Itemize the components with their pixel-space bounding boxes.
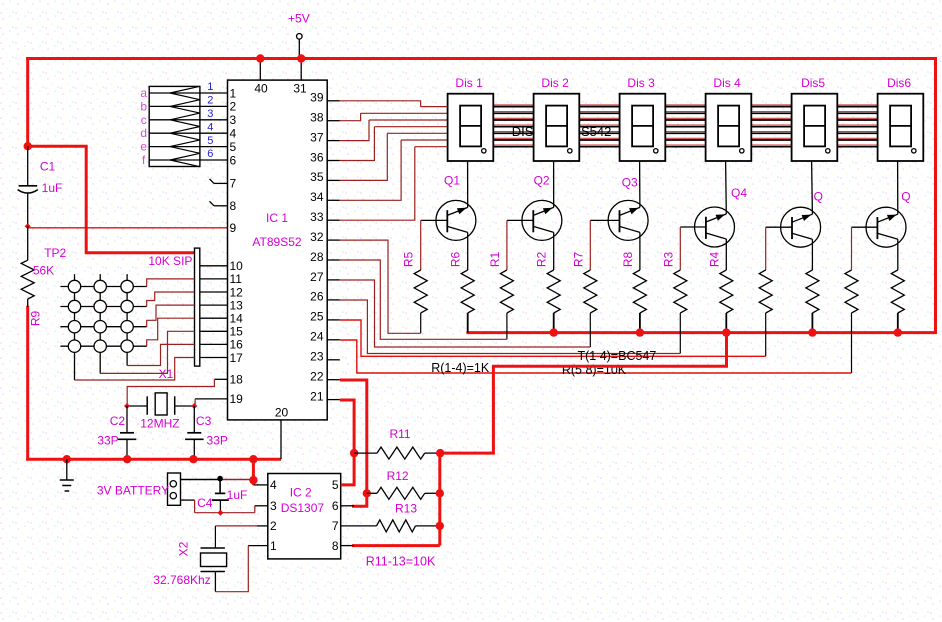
capacitor C2 33P — [97, 406, 136, 459]
resistor RE6 (emitter of Q6) — [891, 270, 904, 333]
pin 24 stub and label — [310, 330, 340, 344]
svg-text:R1: R1 — [488, 252, 502, 268]
pin 14 label — [230, 312, 244, 326]
svg-text:21: 21 — [310, 389, 324, 403]
pin 40 VCC — [254, 54, 268, 95]
pin 36 stub and label — [310, 150, 340, 164]
junction at C1 top — [24, 142, 32, 150]
connector 3V BATTERY — [97, 473, 181, 505]
svg-text:4: 4 — [230, 127, 237, 141]
pin 7 stub (n.c.) — [210, 179, 228, 184]
svg-text:32.768Khz: 32.768Khz — [153, 573, 210, 587]
pin 18 label — [230, 373, 244, 387]
IC2 DS1307 RTC — [268, 474, 341, 559]
svg-text:32: 32 — [310, 230, 324, 244]
pin 15 label — [230, 325, 244, 339]
wire +5V right border — [934, 57, 937, 334]
wire pin 3 to network, net 3 — [200, 108, 228, 120]
svg-text:2: 2 — [270, 519, 277, 533]
wire keypad col3 to pin 16 — [127, 344, 194, 365]
junction C4 top — [217, 476, 223, 482]
resistor R12 — [367, 469, 440, 499]
svg-text:X2: X2 — [177, 541, 191, 556]
junction R8 at +5V rail — [636, 328, 644, 336]
svg-text:12: 12 — [230, 285, 244, 299]
junction VBAT at red branch — [249, 476, 257, 484]
pin 31 EA — [293, 54, 307, 95]
wire pin 14 to SIP — [200, 317, 228, 319]
display Dis6 (7-segment) — [878, 76, 924, 161]
svg-text:a: a — [140, 86, 147, 100]
wire pin 27 to R1 — [340, 260, 507, 339]
wire segment bus rows through displays — [448, 107, 878, 147]
resistor RB5 (base of Q5) — [759, 227, 772, 356]
node C4 bottom junction — [217, 510, 223, 516]
svg-text:10: 10 — [230, 259, 244, 273]
junction RE5 at +5V rail — [808, 328, 816, 336]
wire pin 39 to segment bus row 1 — [340, 101, 448, 107]
resistor R2 (emitter of Q2) — [535, 252, 561, 333]
svg-text:14: 14 — [230, 312, 244, 326]
IC1 AT89S52 microcontroller — [228, 80, 328, 420]
junction R12 right — [436, 489, 444, 497]
pin 39 stub and label — [310, 91, 340, 105]
resistor pack 10K SIP — [148, 248, 199, 366]
svg-text:36: 36 — [310, 150, 324, 164]
wire +5V emitter rail — [466, 331, 936, 334]
junction R11 right — [436, 449, 444, 457]
wire pin 11 to SIP — [200, 278, 228, 280]
wire pin 21 to DS1307 pin 5 / R11 — [340, 400, 354, 485]
pin 11 label — [230, 272, 243, 286]
svg-text:3V BATTERY: 3V BATTERY — [97, 484, 169, 498]
junction C3 at GND rail — [189, 455, 197, 463]
svg-text:33P: 33P — [207, 434, 228, 448]
label DISPLAY=BS542 right part — [581, 124, 611, 139]
junction R13 right — [436, 522, 444, 530]
svg-text:4: 4 — [207, 121, 213, 133]
svg-text:56K: 56K — [33, 264, 54, 278]
crystal X2 32.768Khz — [153, 541, 226, 591]
svg-text:7: 7 — [230, 177, 237, 191]
svg-text:+5V: +5V — [288, 11, 310, 25]
pin 33 stub and label — [310, 210, 340, 224]
label R11-13=10K — [366, 555, 436, 569]
pin 25 stub and label — [310, 310, 340, 324]
wire pin 22 to DS1307 pin 6 / R12 — [340, 380, 367, 506]
pin 7 label IC2 — [332, 519, 339, 533]
wire pin 10 to SIP — [200, 265, 228, 267]
svg-text:C3: C3 — [196, 414, 212, 428]
pin 1 label — [230, 86, 237, 100]
svg-text:34: 34 — [310, 190, 324, 204]
svg-text:Q3: Q3 — [622, 175, 638, 189]
svg-text:28: 28 — [310, 250, 324, 264]
pin 12 label — [230, 285, 244, 299]
node c net label — [141, 113, 147, 127]
svg-text:16: 16 — [230, 338, 244, 352]
pin 20 label — [275, 406, 289, 420]
svg-text:1uF: 1uF — [42, 181, 63, 195]
resistor R4 (emitter of Q4) — [707, 252, 733, 333]
wire pin 37 to segment bus row 3 — [340, 120, 448, 141]
pin 7 label — [230, 177, 237, 191]
svg-text:27: 27 — [310, 270, 324, 284]
svg-text:Dis 4: Dis 4 — [713, 76, 741, 90]
svg-text:R6: R6 — [449, 252, 463, 268]
label R(1-4)=1K — [431, 361, 490, 375]
wire battery+ to DS1307 pin 4 (VBAT net) — [181, 480, 268, 485]
capacitor C1 — [18, 146, 63, 226]
svg-text:38: 38 — [310, 111, 324, 125]
pin 2 label IC2 — [270, 519, 277, 533]
transistor Q5 — [766, 161, 823, 270]
wire pin 23 to RB6 — [340, 340, 852, 373]
pin 8 label — [230, 199, 237, 213]
svg-text:R2: R2 — [535, 252, 549, 268]
svg-text:5: 5 — [332, 478, 339, 492]
display Dis 4 (7-segment) — [706, 76, 752, 161]
svg-text:R8: R8 — [621, 252, 635, 268]
wire segment bus red overlay in gaps — [493, 105, 877, 145]
wire +5V top rail — [26, 57, 935, 60]
svg-text:DS1307: DS1307 — [281, 501, 325, 515]
wire R11-13 right pullup vertical to pin 8 — [341, 453, 440, 545]
svg-text:2: 2 — [207, 95, 213, 107]
node crystal right junction — [191, 403, 197, 409]
svg-text:17: 17 — [230, 351, 244, 365]
svg-text:S542: S542 — [581, 124, 611, 139]
svg-text:15: 15 — [230, 325, 244, 339]
wire keypad col1 to pin 17 — [75, 358, 195, 381]
svg-text:20: 20 — [275, 406, 289, 420]
svg-text:R11: R11 — [389, 427, 410, 441]
wire pin 33 to segment bus row 7 — [340, 147, 448, 221]
pin 4 label IC2 — [270, 478, 277, 492]
wire left border upper (+5V to C1) — [26, 57, 29, 146]
svg-text:3: 3 — [207, 108, 213, 120]
svg-text:R13: R13 — [395, 502, 417, 516]
wire pin 35 to segment bus row 5 — [340, 133, 448, 180]
pin 1 label IC2 — [270, 539, 277, 553]
label T(1 4)=BC547 — [577, 349, 656, 363]
svg-text:37: 37 — [310, 130, 324, 144]
wire pin 6 to network, net 6 — [200, 148, 228, 160]
wire pin 38 to segment bus row 2 — [340, 113, 448, 120]
svg-text:1: 1 — [270, 539, 277, 553]
svg-text:Dis 1: Dis 1 — [455, 76, 483, 90]
resistor R6 (emitter of Q1) — [449, 252, 475, 333]
ground — [60, 455, 74, 491]
node d net label — [140, 126, 147, 140]
pin 27 stub and label — [310, 270, 340, 284]
pin 16 label — [230, 338, 244, 352]
junction RE6 at +5V rail — [894, 328, 902, 336]
transistor Q4 — [680, 161, 747, 270]
svg-text:DIS: DIS — [512, 124, 534, 139]
svg-text:5: 5 — [230, 140, 237, 154]
crystal 12MHZ — [127, 393, 194, 431]
wire battery- to DS1307 pin 3 — [181, 500, 268, 513]
pin 38 stub and label — [310, 111, 340, 125]
wire pin 2 to network, net 2 — [200, 95, 228, 107]
svg-text:6: 6 — [230, 153, 237, 167]
svg-text:22: 22 — [310, 370, 324, 384]
transistor Q3 — [590, 161, 648, 270]
wire pin 24 to RB5 — [340, 320, 766, 356]
pin 32 stub and label — [310, 230, 340, 244]
svg-text:13: 13 — [230, 298, 244, 312]
label R(5 8)=10K — [562, 363, 627, 377]
display Dis5 (7-segment) — [792, 76, 838, 161]
wire pin 34 to segment bus row 6 — [340, 140, 448, 200]
svg-text:C1: C1 — [40, 160, 56, 174]
capacitor C4 1uF — [197, 480, 247, 513]
svg-text:9: 9 — [230, 221, 237, 235]
wire left border lower (R9 to GND rail) — [26, 306, 29, 461]
svg-text:40: 40 — [254, 82, 268, 96]
wire +5V branch to 10K SIP — [28, 146, 195, 253]
wire pin 32 to R5 — [340, 240, 421, 333]
svg-text:1: 1 — [207, 81, 213, 93]
resistor R11 — [354, 427, 440, 459]
node crystal left junction — [124, 403, 130, 409]
wire keypad col2 to pin 15 — [100, 331, 194, 373]
svg-text:e: e — [140, 140, 147, 154]
wire pin 17 to SIP — [200, 357, 228, 359]
svg-text:C4: C4 — [197, 496, 213, 510]
svg-text:R12: R12 — [387, 469, 409, 483]
svg-text:AT89S52: AT89S52 — [252, 235, 301, 249]
svg-text:8: 8 — [332, 539, 339, 553]
pin 13 label — [230, 298, 244, 312]
svg-text:10K SIP: 10K SIP — [148, 254, 192, 268]
pin 4 label — [230, 127, 237, 141]
keypad matrix X1 — [60, 274, 146, 380]
pin 37 stub and label — [310, 130, 340, 144]
resistor R9 56K — [21, 226, 66, 326]
svg-text:39: 39 — [310, 91, 324, 105]
display Dis 2 (7-segment) — [534, 76, 580, 161]
wire pullup net to +5V rail — [440, 333, 726, 454]
wire pin 1 to network, net 1 — [200, 81, 228, 93]
wire pin 36 to segment bus row 4 — [340, 127, 448, 161]
svg-text:Q4: Q4 — [731, 186, 747, 200]
svg-text:Q1: Q1 — [444, 174, 460, 188]
svg-text:8: 8 — [230, 199, 237, 213]
transistor Q2 — [507, 161, 562, 270]
svg-text:R7: R7 — [571, 252, 585, 268]
wire pin 16 to SIP — [200, 343, 228, 345]
pin 28 stub and label — [310, 250, 340, 264]
pin 3 label IC2 — [270, 499, 277, 513]
pin 8 label IC2 — [332, 539, 339, 553]
junction R12 left — [363, 489, 371, 497]
pin 9 label — [230, 221, 237, 235]
pin 2 label — [230, 100, 237, 114]
svg-text:23: 23 — [310, 350, 324, 364]
pin 19 label — [230, 392, 244, 406]
svg-text:7: 7 — [332, 519, 339, 533]
pin 6 label IC2 — [332, 499, 339, 513]
wire pin 25 to R3 — [340, 300, 681, 354]
pin 22 stub and label — [310, 370, 340, 384]
svg-text:Dis 3: Dis 3 — [627, 76, 655, 90]
svg-text:1uF: 1uF — [227, 488, 248, 502]
resistor R13 — [341, 502, 440, 532]
svg-text:Q: Q — [814, 190, 823, 204]
svg-text:C2: C2 — [110, 414, 126, 428]
svg-text:IC 1: IC 1 — [266, 211, 288, 225]
wire pin 12 to SIP — [200, 291, 228, 293]
wire DS1307 pin 2 to X2 — [215, 526, 267, 548]
junction GND branch to IC2 — [249, 455, 257, 463]
pin 21 stub and label — [310, 389, 340, 403]
label DISPLAY=BS542 left part — [512, 124, 534, 139]
node b net label — [140, 99, 147, 113]
svg-text:R3: R3 — [661, 252, 675, 268]
resistor R5 (base of Q1) — [402, 220, 428, 333]
svg-text:12MHZ: 12MHZ — [140, 417, 179, 431]
svg-text:4: 4 — [270, 478, 277, 492]
wire pin 4 to network, net 4 — [200, 121, 228, 133]
node RST junction (C1/R9/pin9) — [25, 223, 31, 229]
pin 8 stub (n.c.) — [210, 201, 228, 206]
node f net label — [142, 153, 146, 167]
resistor R7 (base of Q3) — [571, 220, 597, 347]
svg-text:Q2: Q2 — [534, 174, 550, 188]
wire GND bottom rail — [26, 458, 281, 461]
svg-text:3: 3 — [230, 113, 237, 127]
wire pin 5 to network, net 5 — [200, 135, 228, 147]
svg-text:24: 24 — [310, 330, 324, 344]
pin 26 stub and label — [310, 290, 340, 304]
pin 34 stub and label — [310, 190, 340, 204]
wire keypad row4 to pin 14 — [147, 318, 195, 346]
wire pin 26 to R7 — [340, 280, 591, 347]
resistor R3 (base of Q4) — [661, 227, 687, 354]
node a net label — [140, 86, 147, 100]
svg-text:d: d — [140, 126, 147, 140]
wire keypad row2 to pin 12 — [147, 292, 195, 307]
pin 23 stub and label — [310, 350, 340, 364]
wire pin 20 to GND rail — [280, 420, 282, 459]
pin 10 label — [230, 259, 244, 273]
svg-text:R4: R4 — [707, 252, 721, 268]
resistor R8 (emitter of Q3) — [621, 252, 647, 333]
svg-text:R(1-4)=1K: R(1-4)=1K — [431, 361, 490, 375]
transistor Q6 — [852, 161, 911, 270]
wire GND branch down to DS1307 pin 4 — [252, 459, 255, 485]
power +5V terminal — [288, 11, 310, 58]
svg-text:T(1 4)=BC547: T(1 4)=BC547 — [577, 349, 656, 363]
junction C2 at GND rail — [123, 455, 131, 463]
resistor R1 (base of Q2) — [488, 220, 514, 339]
svg-text:Q: Q — [901, 190, 910, 204]
label X1 — [159, 367, 174, 381]
display Dis 3 (7-segment) — [620, 76, 666, 161]
capacitor C3 33P — [185, 406, 228, 459]
svg-text:25: 25 — [310, 310, 324, 324]
svg-text:18: 18 — [230, 373, 244, 387]
node e net label — [140, 140, 147, 154]
wire pin 19 to crystal — [195, 399, 227, 406]
pin 5 label — [230, 140, 237, 154]
wire pin 13 to SIP — [200, 304, 228, 306]
pin 35 stub and label — [310, 170, 340, 184]
svg-text:b: b — [140, 99, 147, 113]
svg-text:IC 2: IC 2 — [290, 486, 312, 500]
junction R11 left — [350, 449, 358, 457]
svg-text:33P: 33P — [97, 434, 118, 448]
pin 6 label — [230, 153, 237, 167]
resistor RB6 (base of Q6) — [845, 227, 858, 373]
svg-text:2: 2 — [230, 100, 237, 114]
pin 17 label — [230, 351, 244, 365]
wire keypad row1 to pin 11 — [147, 279, 195, 287]
svg-text:c: c — [141, 113, 147, 127]
svg-text:1: 1 — [230, 86, 237, 100]
svg-text:26: 26 — [310, 290, 324, 304]
wire X2 to DS1307 pin 1 — [215, 546, 267, 592]
svg-text:Dis 2: Dis 2 — [541, 76, 569, 90]
junction R2 at +5V rail — [550, 328, 558, 336]
svg-text:19: 19 — [230, 392, 244, 406]
pin 3 label — [230, 113, 237, 127]
pin 5 label IC2 — [332, 478, 339, 492]
wire pin 15 to SIP — [200, 330, 228, 332]
transistor Q1 — [421, 161, 476, 270]
junction R4 at +5V rail — [722, 328, 730, 336]
wire pin 18 to crystal — [127, 379, 227, 406]
svg-text:TP2: TP2 — [44, 246, 66, 260]
svg-text:Dis5: Dis5 — [801, 76, 825, 90]
resistor RE5 (emitter of Q5) — [806, 270, 819, 333]
wire pin 9 RST net — [28, 227, 228, 229]
resistor network RN1 (segment resistors a-f) — [149, 86, 200, 166]
wire keypad row3 to pin 13 — [147, 305, 195, 327]
svg-text:31: 31 — [293, 82, 307, 96]
svg-text:R9: R9 — [29, 311, 43, 327]
svg-text:35: 35 — [310, 170, 324, 184]
svg-text:5: 5 — [207, 135, 213, 147]
svg-text:33: 33 — [310, 210, 324, 224]
svg-text:3: 3 — [270, 499, 277, 513]
svg-text:6: 6 — [207, 148, 213, 160]
display Dis 1 (7-segment) — [448, 76, 494, 161]
svg-text:6: 6 — [332, 499, 339, 513]
svg-text:R5: R5 — [402, 252, 416, 268]
svg-text:Dis6: Dis6 — [887, 76, 911, 90]
svg-text:11: 11 — [230, 272, 243, 286]
svg-text:R11-13=10K: R11-13=10K — [366, 555, 436, 569]
